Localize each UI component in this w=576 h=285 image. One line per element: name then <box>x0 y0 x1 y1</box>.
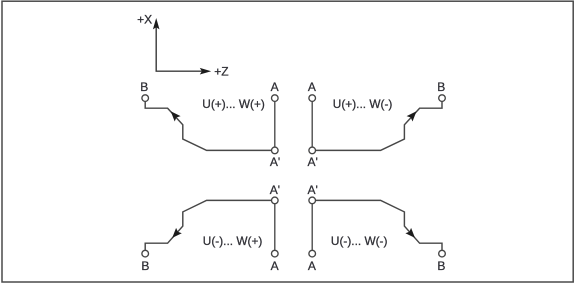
axis +X arrow (vertical) <box>153 18 160 71</box>
wire: tool path from A' up to B <box>312 101 442 150</box>
svg-text:B: B <box>140 80 148 94</box>
svg-text:A': A' <box>307 155 317 169</box>
svg-text:+X: +X <box>137 13 152 27</box>
node B <box>439 95 446 102</box>
figure 4 (bottom-right): chamfer path A'/A to B <box>307 183 445 273</box>
wire: tool path from A' down to B <box>145 200 275 250</box>
arrow on chamfer pointing to B <box>172 228 182 238</box>
svg-text:A: A <box>308 259 316 273</box>
node B <box>439 250 446 257</box>
svg-text:U(-)... W(-): U(-)... W(-) <box>331 234 388 248</box>
svg-text:U(+)... W(+): U(+)... W(+) <box>202 97 265 111</box>
node A' <box>309 197 316 204</box>
axis +Z arrow (horizontal) <box>156 68 212 75</box>
wire: segment A' to A <box>311 200 313 253</box>
wire: tool path from A' down to B <box>312 200 442 250</box>
wire: segment A to A' <box>274 98 276 150</box>
svg-text:A': A' <box>270 155 280 169</box>
figure 2 (top-right): chamfer path A/A' to B <box>307 80 445 169</box>
svg-text:A': A' <box>270 183 280 197</box>
wire: tool path from B down to A' <box>145 101 275 150</box>
svg-text:+Z: +Z <box>214 65 228 79</box>
node A <box>309 250 316 257</box>
svg-text:B: B <box>437 80 445 94</box>
node A' <box>309 147 316 154</box>
figure 3 (bottom-left): chamfer path A'/A to B <box>141 183 280 273</box>
svg-text:B: B <box>141 259 149 273</box>
svg-text:A: A <box>271 259 279 273</box>
node A <box>309 95 316 102</box>
node A' <box>272 197 279 204</box>
arrow on chamfer pointing to B <box>171 111 181 121</box>
arrow on chamfer pointing to B <box>405 228 415 238</box>
svg-text:U(-)... W(+): U(-)... W(+) <box>203 234 263 248</box>
svg-text:U(+)... W(-): U(+)... W(-) <box>333 97 393 111</box>
svg-text:A': A' <box>307 183 317 197</box>
node A' <box>272 147 279 154</box>
node A <box>272 250 279 257</box>
arrow on chamfer pointing to B <box>407 111 417 121</box>
svg-text:A: A <box>271 80 279 94</box>
svg-text:B: B <box>437 259 445 273</box>
figure 1 (top-left): chamfer path B to A/A' <box>140 80 280 169</box>
node A <box>272 95 279 102</box>
wire: segment A to A' <box>311 98 313 150</box>
wire: segment A' to A <box>274 200 276 253</box>
svg-text:A: A <box>308 80 316 94</box>
node B <box>142 95 149 102</box>
node B <box>142 250 149 257</box>
